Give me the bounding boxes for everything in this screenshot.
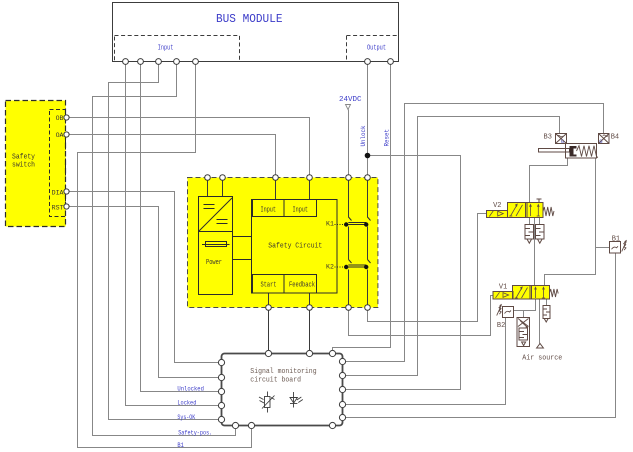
svg-text:Input: Input	[293, 207, 309, 215]
svg-text:Sys-OK: Sys-OK	[177, 414, 195, 421]
svg-text:DIA: DIA	[52, 189, 64, 196]
svg-text:K2: K2	[326, 264, 334, 271]
svg-text:B1: B1	[612, 236, 620, 244]
svg-text:switch: switch	[12, 162, 35, 170]
svg-text:Safety Circuit: Safety Circuit	[268, 243, 322, 251]
svg-text:B1: B1	[177, 442, 184, 449]
svg-text:circuit board: circuit board	[250, 377, 301, 385]
svg-text:OB: OB	[56, 115, 64, 122]
svg-text:Signal monitoring: Signal monitoring	[250, 368, 316, 376]
svg-text:RST: RST	[52, 205, 64, 212]
svg-text:Unlocked: Unlocked	[177, 386, 204, 393]
svg-text:Input: Input	[261, 207, 277, 215]
svg-text:K1: K1	[326, 221, 334, 228]
svg-text:G: G	[599, 138, 602, 145]
svg-text:BUS MODULE: BUS MODULE	[216, 12, 283, 26]
svg-text:Start: Start	[261, 282, 277, 290]
svg-text:B2: B2	[497, 322, 505, 330]
svg-text:B4: B4	[611, 134, 619, 142]
svg-text:V2: V2	[493, 202, 501, 210]
svg-text:Safety-pos.: Safety-pos.	[178, 429, 212, 436]
svg-text:Reset: Reset	[383, 129, 390, 147]
svg-text:OA: OA	[56, 132, 64, 139]
svg-text:B3: B3	[544, 134, 552, 142]
svg-text:Safety: Safety	[12, 154, 35, 162]
svg-text:Feedback: Feedback	[289, 282, 315, 290]
svg-text:G: G	[561, 138, 564, 145]
svg-text:Locked: Locked	[177, 400, 196, 407]
svg-text:Input: Input	[158, 45, 174, 53]
svg-text:Air source: Air source	[522, 355, 562, 363]
svg-text:V1: V1	[499, 284, 507, 292]
svg-text:Output: Output	[367, 45, 386, 53]
svg-text:Power: Power	[206, 259, 222, 267]
svg-text:Unlock: Unlock	[360, 125, 367, 146]
svg-text:24VDC: 24VDC	[339, 96, 362, 104]
